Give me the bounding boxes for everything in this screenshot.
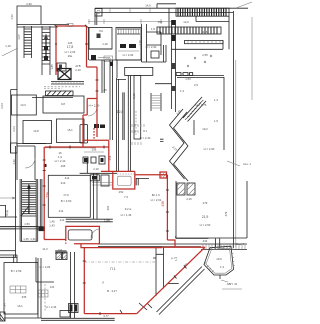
dashed service line bbox=[44, 86, 80, 88]
radiator boxes on y75.5 bbox=[176, 73, 181, 76]
svg-text:254: 254 bbox=[108, 155, 112, 160]
red shaft U B2 bbox=[113, 171, 135, 189]
right boundary wall bbox=[233, 11, 235, 248]
small room left edge bbox=[11, 143, 18, 153]
wall y75 right double bbox=[177, 76, 224, 78]
left outer wall bbox=[16, 24, 18, 90]
shaft inner box bbox=[117, 176, 131, 185]
red vertical x167.4 bbox=[166, 175, 168, 240]
room V=3.60 bbox=[48, 175, 90, 217]
svg-text:391: 391 bbox=[106, 205, 110, 210]
wall y84 right of central bbox=[155, 83, 172, 85]
wall x163 bbox=[164, 45, 167, 62]
svg-text:9,2 м: 9,2 м bbox=[125, 207, 132, 211]
bottom right room walls bbox=[176, 181, 247, 238]
X-box appliance bbox=[58, 69, 71, 80]
stairwell room right of LK bbox=[116, 28, 141, 61]
top tick marks bbox=[110, 8, 150, 12]
svg-text:1,4: 1,4 bbox=[174, 257, 178, 261]
wall x194 bbox=[193, 120, 195, 135]
wall y62 bbox=[142, 61, 167, 63]
svg-text:7-й: 7-й bbox=[58, 248, 62, 252]
shaft top dashes bbox=[117, 173, 135, 175]
svg-text:1,45: 1,45 bbox=[23, 237, 29, 241]
dashed vertical bbox=[44, 284, 46, 312]
svg-text:7,94: 7,94 bbox=[3, 303, 7, 309]
svg-text:1,5: 1,5 bbox=[151, 27, 155, 31]
wall y258 double bbox=[0, 255, 17, 257]
bay window polygon bbox=[204, 246, 234, 275]
svg-text:1,5: 1,5 bbox=[214, 119, 218, 123]
wall pair x86.5 bbox=[87, 27, 89, 60]
wall x229 upper bbox=[228, 22, 230, 50]
svg-text:252: 252 bbox=[119, 190, 124, 194]
black wall stub y178 bbox=[136, 178, 149, 185]
svg-text:16,1: 16,1 bbox=[17, 304, 23, 308]
stair arrow bbox=[28, 186, 30, 214]
small closet box bbox=[151, 51, 159, 58]
svg-text:2,04: 2,04 bbox=[0, 103, 4, 109]
red vertical x108.8 bbox=[108, 140, 110, 171]
svg-text:1,45: 1,45 bbox=[101, 88, 107, 92]
diagonal stair band bbox=[183, 97, 206, 122]
svg-text:1,16: 1,16 bbox=[102, 42, 108, 46]
vert wall x169 under top line bbox=[168, 8, 170, 27]
svg-text:Н = 2,60: Н = 2,60 bbox=[200, 223, 211, 227]
box 2,03 bbox=[104, 56, 113, 62]
band3 narrow bbox=[185, 41, 224, 44]
svg-text:279: 279 bbox=[203, 201, 208, 205]
svg-text:335: 335 bbox=[22, 295, 27, 299]
wall under hatch band bbox=[32, 96, 73, 98]
svg-text:17,8: 17,8 bbox=[67, 45, 74, 49]
svg-text:4-Б: 4-Б bbox=[50, 285, 54, 289]
wall x224 bbox=[223, 77, 225, 150]
fixtures in stairwell room bbox=[120, 44, 126, 48]
left stub walls bbox=[0, 205, 17, 217]
wall pair to left edge bbox=[0, 227, 16, 229]
svg-text:1,53: 1,53 bbox=[185, 77, 191, 81]
wall pair x70 bbox=[71, 252, 75, 318]
fence wall with ticks bbox=[51, 82, 84, 85]
long central wall pair bbox=[172, 20, 176, 112]
svg-text:Л.К: Л.К bbox=[99, 29, 104, 33]
leader arrow left bbox=[0, 197, 16, 199]
dashed duct line bbox=[135, 111, 137, 135]
outer left boundary lower bbox=[11, 90, 18, 154]
svg-text:Н = 2,90: Н = 2,90 bbox=[146, 45, 157, 49]
dash-dot line y262 bbox=[84, 261, 155, 263]
svg-text:17,9: 17,9 bbox=[63, 193, 69, 197]
corridor wall pair D bbox=[128, 75, 130, 171]
svg-text:2,55: 2,55 bbox=[202, 53, 208, 57]
door blocks on red vertical bbox=[94, 124, 99, 128]
small table grid bbox=[10, 286, 26, 293]
red notch y115 bbox=[83, 114, 87, 116]
top short upper line bbox=[157, 4, 176, 8]
svg-text:19,2: 19,2 bbox=[202, 127, 208, 131]
blocks on central wall bbox=[172, 63, 176, 69]
red top edge P1 room bbox=[84, 247, 162, 249]
room LK lower wall bbox=[89, 49, 141, 60]
svg-text:12,6: 12,6 bbox=[183, 20, 189, 24]
small stair ladder left bbox=[24, 26, 32, 58]
wall y49.3 bbox=[172, 41, 224, 50]
T wall horizontal bar bbox=[125, 67, 153, 75]
svg-text:АВП. 41: АВП. 41 bbox=[227, 282, 238, 286]
small diagonal marks bottom bbox=[139, 303, 152, 310]
red band top y147 bbox=[45, 146, 109, 148]
red vertical x97 bbox=[96, 67, 98, 137]
bay leader tick bbox=[219, 275, 221, 279]
svg-text:412: 412 bbox=[60, 218, 65, 222]
svg-text:14,8: 14,8 bbox=[33, 129, 39, 133]
bottom wall hatch right part bbox=[201, 244, 247, 250]
zigzag wall bbox=[170, 109, 189, 181]
svg-text:4,15: 4,15 bbox=[186, 197, 192, 201]
svg-text:255: 255 bbox=[203, 30, 208, 34]
svg-text:Н = 4,84: Н = 4,84 bbox=[40, 265, 51, 269]
right boundary wall inner bbox=[235, 60, 237, 247]
svg-text:1,85: 1,85 bbox=[50, 64, 54, 70]
left annex rooms bbox=[12, 95, 37, 115]
hatch band top-right 1 bbox=[176, 8, 229, 16]
red jog to bay bbox=[167, 240, 175, 247]
ties on shaft walls bbox=[153, 254, 164, 258]
black box on corridor wall bbox=[110, 62, 113, 66]
cross marks room bbox=[187, 55, 212, 67]
wc fixtures row bbox=[83, 157, 88, 163]
svg-text:В = 3,60: В = 3,60 bbox=[61, 199, 72, 203]
svg-text:Б1Д: Б1Д bbox=[5, 210, 9, 215]
svg-text:1,43: 1,43 bbox=[49, 224, 55, 228]
door arc red opening bbox=[88, 107, 97, 116]
left lower wall line bbox=[0, 250, 16, 252]
bay top connector verticals bbox=[216, 238, 220, 248]
red horiz y247.3 bbox=[162, 246, 205, 248]
corridor wall pair A bbox=[102, 60, 104, 93]
corridor wall pair mid bbox=[123, 92, 124, 140]
left room mid wall bbox=[36, 257, 54, 282]
svg-text:414: 414 bbox=[59, 209, 64, 213]
vert wall x96 under top line bbox=[95, 13, 97, 25]
АВП underline bbox=[222, 288, 242, 290]
svg-text:Н = 2,90: Н = 2,90 bbox=[89, 104, 100, 108]
red corner box near zigzag bbox=[160, 172, 167, 178]
svg-text:2,10: 2,10 bbox=[75, 68, 81, 72]
svg-text:З.1: З.1 bbox=[143, 129, 147, 133]
wall under block y=27 bbox=[17, 26, 56, 28]
svg-text:2,03: 2,03 bbox=[105, 57, 111, 61]
meter box at top bbox=[95, 9, 102, 17]
svg-text:Н = 2,40: Н = 2,40 bbox=[140, 136, 151, 140]
dimension ticks on red lines bbox=[43, 160, 46, 205]
fixtures below y173 bbox=[90, 175, 99, 181]
room LK walls bbox=[89, 28, 112, 50]
svg-text:15,1: 15,1 bbox=[67, 128, 73, 132]
vent tick on red top bbox=[67, 24, 73, 27]
red drop below B1 bbox=[81, 244, 84, 314]
svg-text:П.1: П.1 bbox=[110, 267, 115, 271]
svg-text:234: 234 bbox=[46, 192, 50, 198]
svg-text:1,07: 1,07 bbox=[17, 34, 21, 40]
red jog y67 bbox=[87, 66, 98, 68]
svg-text:1,3: 1,3 bbox=[180, 89, 184, 93]
black diagonal parallel to red bbox=[157, 267, 205, 315]
small square room gray bbox=[80, 125, 88, 144]
svg-text:Н = 2,90: Н = 2,90 bbox=[204, 147, 215, 151]
stair S2 shaft bbox=[42, 26, 50, 75]
svg-text:7 й: 7 й bbox=[124, 195, 128, 199]
wall pair right of stair bbox=[40, 179, 42, 227]
red door box B1 bbox=[66, 226, 100, 243]
svg-text:2,5: 2,5 bbox=[194, 83, 198, 87]
bottom edge line bbox=[4, 317, 41, 319]
wall tick line y21.5 bbox=[88, 19, 171, 24]
top long double wall bbox=[95, 8, 248, 12]
red notch x87 bbox=[86, 99, 88, 116]
svg-text:2,04: 2,04 bbox=[12, 126, 16, 132]
svg-text:2,02: 2,02 bbox=[132, 93, 136, 99]
black tick on red K bbox=[44, 164, 47, 167]
svg-text:1,10: 1,10 bbox=[138, 40, 142, 46]
svg-text:1186: 1186 bbox=[104, 219, 110, 223]
svg-text:Н = 2,75: Н = 2,75 bbox=[196, 103, 207, 107]
small WC room bbox=[17, 146, 35, 180]
svg-text:14,0: 14,0 bbox=[145, 4, 151, 8]
door arc bottom stair bbox=[91, 229, 100, 238]
long bottom wall double bbox=[98, 244, 247, 247]
red boundary: top-left room top bbox=[56, 25, 87, 27]
appliance boxes above X-box bbox=[57, 63, 66, 71]
svg-text:1,40: 1,40 bbox=[12, 159, 16, 165]
wall pair right of room bbox=[94, 173, 98, 219]
wall pair y219 bbox=[66, 219, 113, 222]
svg-text:1,52: 1,52 bbox=[10, 14, 14, 20]
svg-text:2,90: 2,90 bbox=[26, 2, 32, 6]
svg-text:В = 2,59: В = 2,59 bbox=[11, 269, 22, 273]
black v x87.3 lower bbox=[86, 158, 88, 173]
svg-text:1,3: 1,3 bbox=[220, 265, 224, 269]
bottom-left corner stub bbox=[0, 312, 5, 321]
svg-text:156: 156 bbox=[158, 20, 163, 24]
svg-text:1,16: 1,16 bbox=[5, 44, 11, 48]
svg-text:В - 3,27: В - 3,27 bbox=[107, 289, 117, 293]
svg-text:Вс.1 С: Вс.1 С bbox=[152, 193, 160, 197]
svg-text:1,3: 1,3 bbox=[214, 98, 218, 102]
black bottom wall pair bbox=[41, 318, 115, 320]
svg-text:Зам. 4: Зам. 4 bbox=[236, 242, 245, 246]
short wall pair above bbox=[55, 251, 67, 253]
thin line under red band bbox=[45, 147, 96, 149]
shaft walls above red diagonal bbox=[156, 247, 164, 296]
hatched blocks above bbox=[56, 252, 67, 260]
svg-text:Н = 2,61: Н = 2,61 bbox=[151, 198, 162, 202]
hatch band top-right 2 bbox=[157, 27, 221, 34]
svg-text:479: 479 bbox=[224, 211, 228, 216]
svg-text:Н = 2,44: Н = 2,44 bbox=[46, 305, 57, 309]
small rooms cluster walls bbox=[142, 24, 147, 62]
hatch marks room 3.1 bbox=[132, 124, 144, 145]
corridor wall pair B bbox=[110, 60, 113, 140]
svg-text:Н = 2,94: Н = 2,94 bbox=[123, 53, 134, 57]
corridor jog wall bbox=[117, 60, 126, 79]
svg-text:Н = 1,46: Н = 1,46 bbox=[121, 213, 132, 217]
bottom-left room bbox=[4, 263, 38, 314]
bay inner hatch bbox=[205, 246, 235, 272]
wall stub left of zigzag bbox=[160, 139, 164, 141]
svg-text:296: 296 bbox=[92, 148, 97, 152]
hatched boxes near zigzag bottom bbox=[177, 183, 195, 195]
door block near red K bbox=[39, 227, 46, 231]
svg-text:1,41: 1,41 bbox=[30, 237, 36, 241]
red dashed shaft edge bbox=[93, 128, 95, 139]
wall pair left of red K bbox=[0, 227, 44, 229]
hatched wall band below red room bbox=[46, 91, 74, 96]
svg-text:11,3: 11,3 bbox=[42, 247, 48, 251]
red left edge bbox=[55, 26, 57, 75]
sink mark mid band bbox=[84, 151, 104, 153]
top-left block walls bbox=[17, 6, 41, 25]
corridor wall pair C lower bbox=[117, 78, 119, 171]
door arc WC bbox=[25, 158, 35, 168]
wall top horizontal y=24 bbox=[17, 24, 69, 26]
stair S1 left big bbox=[20, 179, 38, 241]
small stair flight right bbox=[151, 93, 161, 111]
black wall y173.3 bbox=[80, 172, 117, 174]
svg-text:1,50: 1,50 bbox=[24, 222, 30, 226]
wall y144 bbox=[17, 143, 46, 145]
small box bottom bbox=[60, 311, 70, 318]
red band upper y140 bbox=[83, 139, 109, 141]
stair S2 arrow bbox=[45, 37, 47, 60]
svg-text:Н = 2,10: Н = 2,10 bbox=[55, 159, 66, 163]
small grid mid column bbox=[39, 290, 49, 297]
svg-text:313: 313 bbox=[61, 181, 66, 185]
T wall stem bbox=[134, 75, 141, 139]
wall above red y238 bbox=[176, 236, 209, 238]
red diagonal bbox=[137, 247, 205, 313]
stairwell treads bbox=[119, 29, 139, 34]
stair return wall bbox=[196, 16, 229, 21]
stair break slash bbox=[21, 206, 29, 216]
svg-text:21,9: 21,9 bbox=[202, 215, 209, 219]
faint right line bbox=[251, 17, 253, 100]
door leaf in B1 bbox=[68, 230, 92, 240]
svg-text:12,8: 12,8 bbox=[117, 110, 124, 114]
black block on pair y35 bbox=[172, 35, 176, 41]
top right diagonal tick bbox=[236, 2, 252, 8]
red bottom room bottom bbox=[84, 313, 137, 315]
black horiz y283.6 bbox=[168, 283, 179, 285]
black boxes bottom mid bbox=[69, 304, 79, 313]
red horiz y171.4 bbox=[101, 171, 167, 174]
svg-text:Сеч. 1: Сеч. 1 bbox=[243, 162, 251, 166]
red notch y98.5 bbox=[87, 98, 97, 100]
door dashes LK room bbox=[91, 55, 96, 60]
svg-text:9,8: 9,8 bbox=[61, 102, 65, 106]
red step y239.5 bbox=[44, 239, 66, 241]
svg-text:438: 438 bbox=[161, 201, 165, 207]
red band left x44.2 bbox=[43, 147, 45, 240]
svg-text:414: 414 bbox=[65, 176, 70, 180]
svg-text:2,10: 2,10 bbox=[93, 167, 99, 171]
svg-text:4,77: 4,77 bbox=[103, 314, 109, 318]
black box in LK bbox=[97, 34, 101, 39]
svg-text:296: 296 bbox=[61, 164, 66, 168]
red right edge bbox=[86, 26, 88, 67]
left wall lower bbox=[16, 90, 18, 146]
svg-text:2№: 2№ bbox=[68, 54, 73, 58]
svg-text:19,9: 19,9 bbox=[216, 257, 222, 261]
red notch x83 bbox=[82, 115, 84, 147]
wall pair x38 bbox=[38, 258, 41, 318]
leader line 1,16 bbox=[2, 48, 18, 56]
svg-text:434: 434 bbox=[203, 239, 208, 243]
svg-text:13,3: 13,3 bbox=[20, 103, 26, 107]
